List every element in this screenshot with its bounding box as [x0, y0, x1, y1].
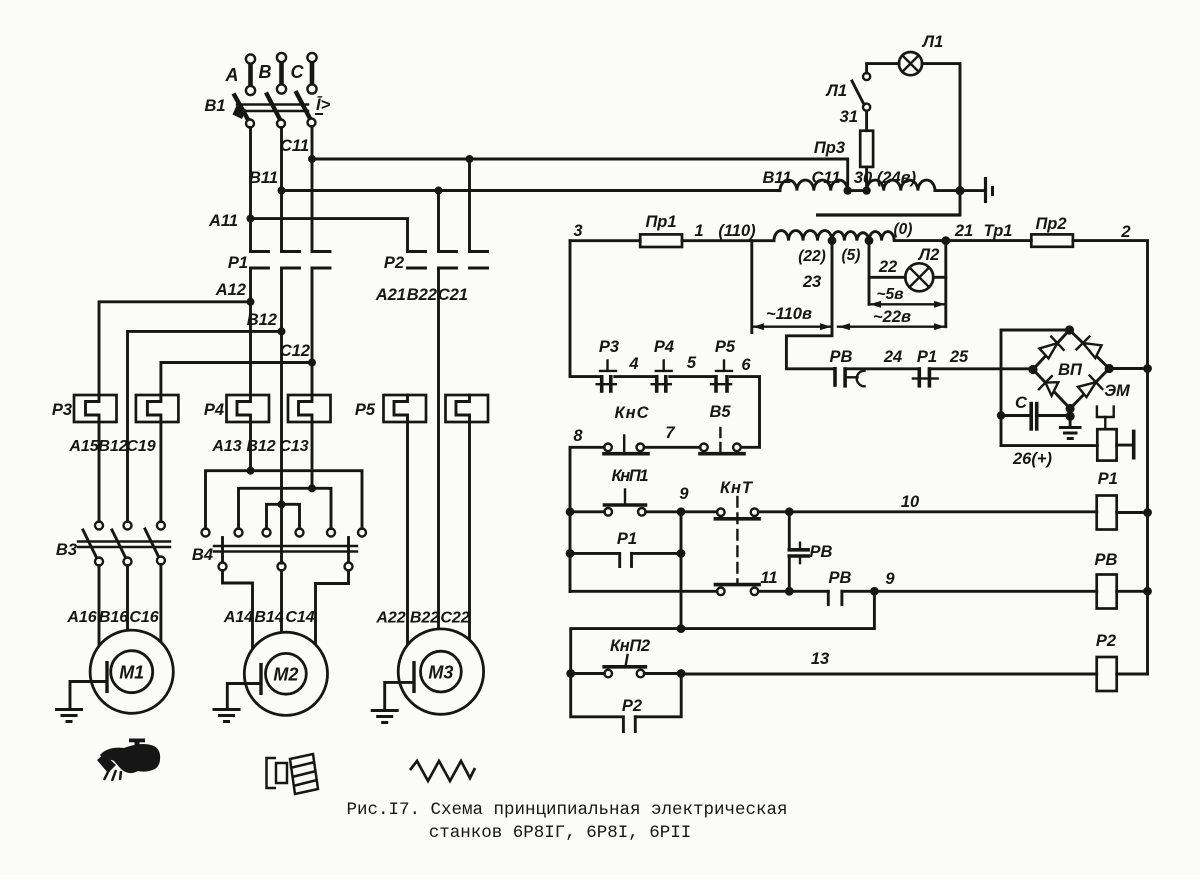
svg-text:В22: В22 — [410, 610, 439, 627]
wire 21 to fuse Pr2 — [946, 239, 1032, 242]
mech link KnT dashed — [736, 497, 738, 583]
node P1 aux left — [566, 549, 575, 558]
svg-text:Р2: Р2 — [384, 254, 404, 272]
svg-text:А12: А12 — [215, 281, 246, 299]
svg-text:6: 6 — [741, 356, 751, 374]
winding 24V top — [777, 180, 960, 191]
node KnP1 bus — [566, 507, 575, 516]
relay coil P1 — [789, 496, 1147, 530]
wire B22 drop to P2 — [437, 191, 440, 252]
switch B5 — [700, 424, 744, 454]
svg-text:Р1: Р1 — [917, 348, 937, 366]
wire A13 down to B4 — [249, 422, 252, 471]
B4 bracket inner — [267, 504, 300, 528]
svg-text:Р1: Р1 — [1098, 470, 1118, 488]
ground M3 — [371, 682, 412, 722]
svg-text:А13: А13 — [211, 438, 241, 455]
fuse link phase B — [277, 53, 286, 94]
button KnT upper — [681, 508, 789, 518]
svg-text:С21: С21 — [438, 286, 468, 304]
wire lamp L1 left — [867, 64, 899, 73]
svg-text:~110в: ~110в — [766, 305, 812, 323]
svg-text:3: 3 — [573, 222, 582, 240]
svg-text:13: 13 — [811, 650, 829, 668]
node C11 winding tap — [844, 186, 852, 194]
svg-text:Р4: Р4 — [654, 338, 674, 356]
wire C22 — [468, 422, 471, 645]
transformer core — [816, 213, 960, 216]
node 9 right — [870, 587, 879, 596]
wire B16 — [126, 566, 129, 641]
wire bridge right to bus — [1109, 367, 1147, 370]
wire 7 — [644, 446, 700, 449]
svg-text:С19: С19 — [126, 438, 155, 455]
svg-text:А14: А14 — [223, 609, 253, 626]
node B11 — [278, 187, 286, 195]
wire A12 branch — [99, 302, 251, 395]
node 30 fuse tap — [862, 186, 870, 194]
svg-text:С: С — [1015, 394, 1028, 412]
switch B1 blades — [233, 91, 316, 128]
svg-text:30 (24в): 30 (24в) — [854, 169, 917, 187]
svg-text:станков 6Р8ІГ, 6Р8І, 6РІІ: станков 6Р8ІГ, 6Р8І, 6РІІ — [429, 823, 692, 843]
wire tap 22 to RV row — [786, 241, 835, 369]
switch B3 — [78, 522, 170, 566]
svg-text:ВП: ВП — [1058, 361, 1083, 379]
svg-text:11: 11 — [760, 569, 777, 587]
node KnP2 right — [677, 669, 686, 678]
svg-text:В14: В14 — [254, 609, 283, 626]
wire A22 — [406, 422, 409, 650]
svg-text:С16: С16 — [129, 609, 158, 626]
wire A11 — [251, 219, 408, 251]
svg-text:А22: А22 — [375, 610, 405, 627]
relay coil RV — [874, 575, 1147, 609]
svg-text:Р1: Р1 — [617, 530, 637, 548]
svg-text:4: 4 — [628, 355, 638, 373]
wire 4 — [615, 375, 656, 378]
wire 8 — [570, 447, 604, 591]
svg-text:М2: М2 — [273, 665, 298, 685]
svg-text:А15: А15 — [68, 438, 99, 455]
svg-text:В5: В5 — [709, 403, 731, 421]
svg-text:(22): (22) — [798, 248, 826, 265]
wire A16 — [98, 566, 101, 646]
wire 5 — [670, 375, 715, 378]
wire C14 — [316, 571, 349, 651]
winding 110V — [774, 231, 946, 241]
svg-text:25: 25 — [949, 348, 969, 366]
svg-text:1: 1 — [694, 222, 703, 240]
svg-text:9: 9 — [885, 570, 895, 588]
fuse Pr3 — [860, 111, 873, 191]
wire B12 branch — [128, 331, 282, 521]
wire B11 — [282, 189, 778, 192]
node 10 — [785, 507, 794, 516]
svg-text:21: 21 — [954, 222, 973, 240]
svg-text:~5в: ~5в — [876, 286, 903, 303]
wire column C top — [311, 127, 314, 252]
wire B14 — [280, 571, 283, 646]
svg-text:23: 23 — [802, 273, 821, 291]
wire node9 drop — [680, 512, 683, 629]
wire node 2 and right bus — [1073, 241, 1148, 674]
svg-text:5: 5 — [687, 354, 697, 372]
svg-text:Пр3: Пр3 — [814, 139, 845, 157]
node tap 22 — [828, 236, 837, 245]
earth ground bridge — [1059, 428, 1082, 439]
wire C11 — [312, 159, 848, 191]
svg-text:Р3: Р3 — [52, 401, 72, 419]
node bottom stub — [1066, 412, 1075, 421]
svg-text:Р3: Р3 — [599, 338, 619, 356]
node KnT-RV — [785, 587, 794, 596]
fuse link phase C — [307, 53, 316, 94]
thermal contact P5 — [711, 361, 732, 392]
motor M2 — [244, 632, 327, 715]
wire C19 down to B3 — [159, 422, 162, 522]
wire 21 drop — [944, 241, 947, 327]
lamp L1 — [899, 52, 922, 75]
node C12 — [308, 359, 316, 367]
contact P1 aux — [570, 553, 681, 566]
svg-text:Р5: Р5 — [355, 401, 376, 419]
wire column A top — [249, 128, 252, 252]
left bus net3 — [569, 241, 572, 377]
contact RV NO row — [828, 591, 874, 604]
button KnT lower — [715, 585, 828, 596]
diode bottom-left — [1039, 376, 1058, 396]
fuse Pr2 — [1031, 234, 1073, 246]
svg-text:Л1: Л1 — [825, 82, 847, 100]
diode top-left — [1039, 337, 1063, 359]
B4 bracket outer — [206, 471, 363, 529]
node net9 junction — [677, 624, 686, 633]
svg-text:31: 31 — [840, 108, 858, 126]
dimension ~5v — [869, 301, 946, 308]
wire lamp L1 right — [922, 64, 960, 215]
switch L1 — [852, 73, 870, 111]
svg-text:22: 22 — [878, 258, 897, 276]
wire ground 24V — [960, 189, 983, 192]
node 21 — [941, 236, 950, 245]
ground M1 — [55, 682, 105, 722]
svg-text:В12: В12 — [98, 438, 127, 455]
svg-text:В: В — [259, 62, 272, 82]
B4 bracket middle — [239, 488, 332, 528]
heater P3 element A15 — [74, 395, 117, 422]
wire bridge bottom stub — [1069, 409, 1072, 428]
wire bridge top loop — [1001, 330, 1070, 446]
wire 25 — [929, 367, 1033, 370]
fuse link phase A — [246, 54, 255, 95]
contactor P1 main contacts — [251, 252, 331, 269]
wire A14 — [223, 571, 253, 651]
svg-text:7: 7 — [665, 424, 675, 442]
svg-text:С11: С11 — [280, 137, 309, 155]
svg-text:В3: В3 — [56, 541, 77, 559]
heater P5 element — [384, 395, 427, 422]
node 9 — [677, 507, 686, 516]
node A11 — [247, 215, 255, 223]
motor M1 — [90, 630, 173, 713]
node KnP2 left — [566, 669, 575, 678]
node bus bridge — [1143, 364, 1152, 373]
node bus P1 — [1143, 508, 1152, 517]
wire B12 down to B4 — [280, 331, 283, 563]
svg-text:С22: С22 — [440, 610, 469, 627]
wire C21 drop to P2 — [468, 159, 471, 251]
wire lamp L2 right — [933, 276, 946, 279]
svg-text:С14: С14 — [285, 609, 314, 626]
svg-text:КнТ: КнТ — [720, 479, 754, 497]
heater P4 element C13 — [288, 395, 331, 422]
relay coil P2 — [681, 657, 1147, 691]
svg-text:А16: А16 — [66, 609, 96, 626]
wire column B top — [280, 128, 283, 252]
svg-text:24: 24 — [883, 348, 902, 366]
diode top-right — [1077, 337, 1102, 359]
thermal contact P3 — [570, 361, 616, 392]
svg-text:(5): (5) — [842, 247, 861, 264]
svg-text:С: С — [291, 62, 305, 82]
svg-text:В16: В16 — [99, 609, 128, 626]
svg-text:Пр2: Пр2 — [1035, 215, 1066, 233]
svg-text:Р2: Р2 — [622, 697, 642, 715]
contact RV time-delay — [835, 369, 865, 387]
lamp L2 feed wire — [868, 241, 871, 305]
svg-text:(110): (110) — [718, 222, 756, 240]
wire 24 — [845, 367, 919, 370]
svg-text:Л2: Л2 — [918, 246, 940, 264]
svg-text:С12: С12 — [280, 342, 310, 360]
node C13-B4 — [308, 484, 316, 492]
svg-text:В1: В1 — [204, 97, 225, 115]
node B12 — [278, 327, 286, 335]
contact RV capacitor branch — [789, 512, 808, 592]
svg-text:Р4: Р4 — [204, 401, 224, 419]
svg-text:Л1: Л1 — [922, 33, 944, 51]
svg-text:РВ: РВ — [830, 348, 853, 366]
node bus RV — [1143, 587, 1152, 596]
dimension ~22v — [838, 323, 946, 330]
wire node 3 top — [570, 239, 640, 242]
wire node 1 — [682, 239, 774, 242]
fuse Pr1 — [640, 234, 682, 247]
heater P4 element A13 — [227, 395, 270, 422]
node A12 — [247, 298, 255, 306]
node cap left — [997, 411, 1005, 419]
wire C12 branch — [161, 363, 312, 396]
svg-text:РВ: РВ — [829, 569, 852, 587]
svg-text:РВ: РВ — [1095, 551, 1118, 569]
svg-text:Р5: Р5 — [715, 338, 736, 356]
svg-text:М1: М1 — [119, 663, 144, 683]
wire row 11 — [570, 590, 717, 593]
heater P3 element C19 — [136, 395, 179, 422]
svg-text:8: 8 — [573, 427, 583, 445]
motor M3 — [398, 629, 483, 714]
svg-text:С13: С13 — [279, 438, 308, 455]
wire 26(+) bus — [1001, 444, 1097, 447]
button KnS stop — [604, 436, 648, 454]
wire column B to B4 — [280, 268, 283, 331]
node C11 — [308, 155, 316, 163]
wire column C to P4 — [311, 268, 314, 395]
svg-text:9: 9 — [679, 485, 689, 503]
svg-text:В22: В22 — [407, 286, 437, 304]
svg-text:(0): (0) — [894, 221, 913, 238]
wire column A to P4 — [249, 268, 252, 395]
node B22 tap — [435, 187, 443, 195]
wire C13 down to B4 — [311, 422, 314, 488]
capacitor C — [1001, 404, 1070, 429]
rectifier bridge VP — [1028, 325, 1113, 413]
svg-text:С11: С11 — [811, 169, 840, 187]
thermal contact P4 — [652, 361, 672, 392]
lamp L2 — [905, 263, 933, 291]
wire lamp L2 left — [869, 276, 905, 279]
wire 6 — [731, 377, 760, 448]
svg-text:Р2: Р2 — [1096, 632, 1116, 650]
svg-text:ЭМ: ЭМ — [1104, 382, 1131, 400]
chassis ground symbol — [986, 177, 993, 203]
icon milling cutter — [267, 754, 319, 794]
diode bottom-right — [1078, 375, 1102, 397]
svg-text:В11: В11 — [249, 169, 278, 187]
svg-text:КнС: КнС — [615, 404, 650, 422]
svg-text:10: 10 — [901, 493, 920, 511]
ground M2 — [213, 684, 260, 722]
contactor P2 main contacts — [408, 252, 488, 269]
button KnP2 — [571, 655, 682, 677]
node B12-B4 — [278, 500, 286, 508]
wire A15 down to B3 — [98, 422, 101, 522]
svg-text:В4: В4 — [192, 546, 213, 564]
node C21 tap — [466, 155, 474, 163]
switch B4 — [202, 529, 367, 571]
svg-text:М3: М3 — [428, 663, 453, 683]
icon coolant pump faucet — [97, 739, 160, 782]
svg-text:~22в: ~22в — [873, 308, 911, 326]
contact P1 NO — [913, 369, 938, 386]
svg-text:Тр1: Тр1 — [984, 222, 1013, 240]
svg-text:РВ: РВ — [810, 543, 833, 561]
svg-text:Пр1: Пр1 — [645, 213, 676, 231]
contact P2 aux — [571, 674, 682, 732]
svg-text:КнП2: КнП2 — [610, 637, 650, 655]
svg-text:А21: А21 — [375, 286, 406, 304]
wire net9 return — [571, 591, 875, 673]
electromagnet EM — [1097, 407, 1134, 461]
svg-text:А: А — [225, 65, 239, 85]
svg-text:Ī>: Ī> — [316, 95, 331, 114]
node P1 aux right — [677, 549, 686, 558]
svg-text:А11: А11 — [208, 212, 238, 230]
node winding right end — [955, 186, 964, 195]
svg-text:Рис.І7. Схема принципиальная э: Рис.І7. Схема принципиальная электрическ… — [346, 800, 787, 820]
wire B22 motor — [437, 268, 440, 650]
dimension ~110v — [752, 241, 832, 333]
wire C16 — [159, 565, 162, 646]
node A13-B4 — [247, 467, 255, 475]
icon spring — [410, 761, 475, 781]
heater P5 element 2 — [446, 395, 489, 422]
svg-text:КнП1: КнП1 — [612, 467, 649, 485]
svg-text:В11: В11 — [762, 169, 791, 187]
svg-text:26(+): 26(+) — [1012, 450, 1052, 468]
node tap 5 — [865, 236, 874, 245]
button KnP1 start — [570, 490, 681, 516]
svg-text:2: 2 — [1120, 223, 1130, 241]
svg-text:Р1: Р1 — [228, 254, 248, 272]
